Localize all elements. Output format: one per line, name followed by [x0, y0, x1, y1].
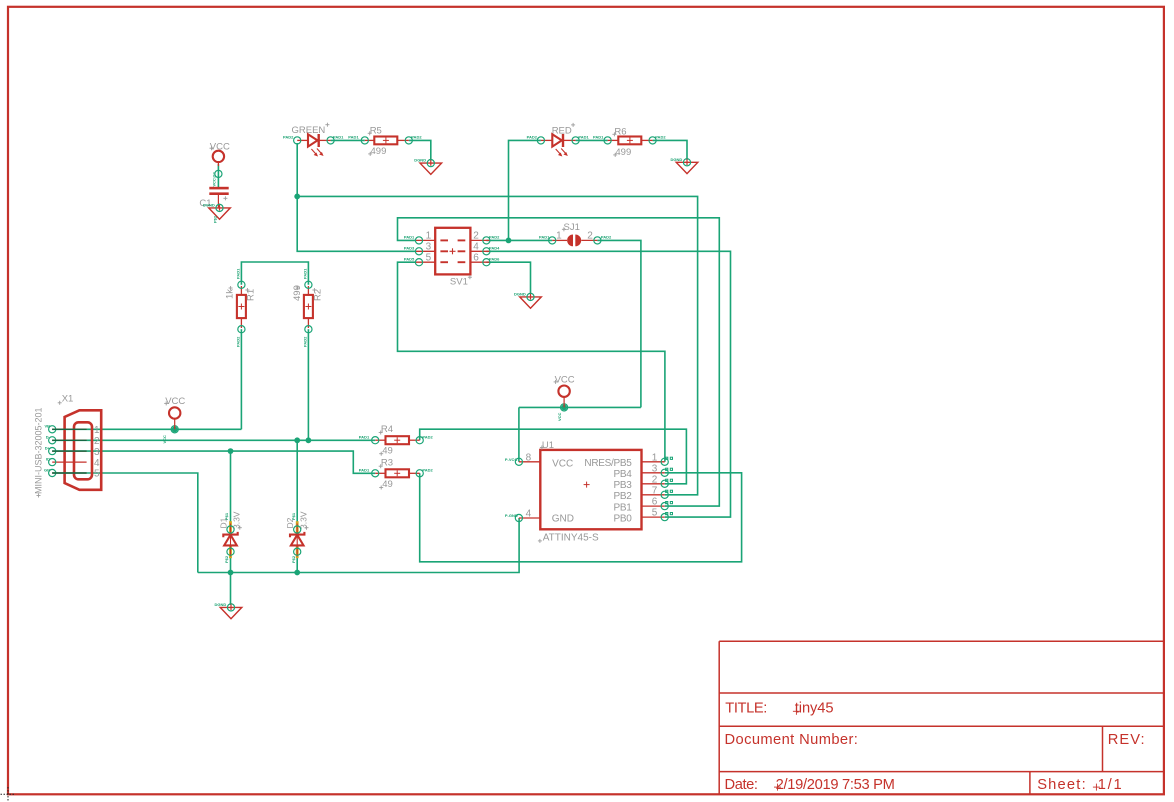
zener diode D1 3.3V: [218, 511, 241, 563]
svg-text:NRES/PB5: NRES/PB5: [584, 458, 632, 469]
resistor R1 (vertical): [225, 268, 257, 347]
svg-text:4: 4: [94, 458, 100, 469]
svg-text:PAD4: PAD4: [489, 246, 500, 251]
wire VCC down to U1 pin8: [518, 407, 520, 461]
svg-text:5: 5: [426, 252, 432, 263]
svg-text:4: 4: [473, 241, 479, 252]
svg-text:PAD2: PAD2: [489, 235, 500, 240]
svg-text:GN: GN: [44, 467, 50, 472]
svg-text:R5: R5: [370, 126, 382, 137]
svg-text:49: 49: [382, 445, 393, 456]
zener diode D2 3.3V: [285, 511, 308, 563]
svg-text:3: 3: [94, 447, 100, 458]
svg-text:8: 8: [526, 452, 532, 463]
svg-text:PAD2: PAD2: [601, 235, 612, 240]
junction GND rail at D1: [228, 570, 234, 576]
svg-text:PAD6: PAD6: [489, 257, 500, 262]
svg-text:2: 2: [94, 436, 100, 447]
svg-text:1: 1: [652, 452, 658, 463]
svg-text:PAD1: PAD1: [539, 235, 550, 240]
svg-text:P$2: P$2: [213, 215, 218, 223]
wire net MOSI: SV1 pin4 to U1 PB0: [486, 251, 730, 517]
svg-text:P$1: P$1: [291, 512, 296, 520]
junction SJ1/RED LED: [506, 238, 512, 244]
svg-text:PAD2: PAD2: [283, 135, 294, 140]
svg-text:PAD1: PAD1: [359, 468, 370, 473]
ground under R6: [671, 157, 698, 174]
junction D- at R2: [306, 437, 312, 443]
svg-text:TITLE:: TITLE:: [725, 700, 767, 716]
svg-text:SV1: SV1: [450, 277, 468, 288]
svg-text:5: 5: [94, 469, 100, 480]
title block text TITLE: [725, 700, 1146, 792]
svg-text:2: 2: [652, 474, 658, 485]
svg-text:PAD1: PAD1: [593, 135, 604, 140]
svg-text:PAD1: PAD1: [578, 135, 589, 140]
wire X1 pin2 row (D-) to R4: [52, 439, 375, 441]
wire ground rail to U1 pin4: [198, 518, 519, 573]
svg-text:PAD1: PAD1: [333, 135, 344, 140]
svg-text:PB1: PB1: [613, 502, 632, 513]
svg-text:GND: GND: [552, 514, 574, 525]
svg-text:PB2: PB2: [613, 491, 632, 502]
svg-text:VCC@1: VCC@1: [212, 171, 217, 186]
supply VCC (above U1): [554, 375, 575, 421]
svg-text:ID: ID: [46, 456, 50, 461]
svg-text:VB: VB: [44, 424, 50, 429]
svg-text:PB4: PB4: [613, 469, 632, 480]
wire net MISO: SV1 pin1 up over to U1 PB1: [398, 218, 720, 506]
svg-text:R4: R4: [381, 424, 393, 435]
svg-text:PB0: PB0: [613, 513, 632, 524]
svg-text:SJ1: SJ1: [564, 222, 580, 233]
supply VCC (above X1 pin1): [162, 396, 185, 443]
svg-text:X1: X1: [62, 394, 74, 405]
wire net RESET: SV1 pin5 to U1 pin1 NRES: [398, 262, 665, 462]
junction VBUS/VCC at X1: [172, 426, 178, 432]
wire GREEN LED cathode to R5: [331, 139, 365, 141]
wire ground rail stub to GND symbol: [230, 573, 232, 606]
junction D- at D2: [294, 437, 300, 443]
svg-text:PAD2: PAD2: [422, 468, 433, 473]
wire net SCK: GREEN LED anode down to SV1 pin3 row: [297, 143, 415, 251]
U1 pin names NRES/PB5..PB0: [584, 458, 632, 524]
svg-text:P-GND: P-GND: [505, 513, 518, 518]
supply VCC (top left, above C1): [210, 141, 230, 186]
junction D+ at D1: [228, 448, 234, 454]
wire overlap shading on X1 pin stubs: [52, 429, 86, 473]
wire R6 to ground: [653, 140, 687, 159]
svg-text:PAD1: PAD1: [235, 268, 240, 279]
title block frame: [719, 641, 1164, 794]
U1 pin numbers 8,4: [526, 452, 532, 519]
wire D1 top branch: [230, 451, 232, 521]
X1 pin numbers 1-5: [94, 425, 100, 480]
wire SV1 pin6 to ground: [486, 262, 530, 294]
svg-text:4: 4: [526, 509, 532, 520]
svg-text:PAD2: PAD2: [527, 135, 538, 140]
solder jumper SJ1: [539, 222, 612, 246]
wire C1 top to VCC: [217, 164, 219, 188]
svg-text:7: 7: [652, 485, 658, 496]
svg-text:VCC: VCC: [162, 435, 167, 444]
pin header SV1: [404, 228, 500, 288]
svg-text:1: 1: [556, 231, 562, 242]
svg-text:MINI-USB-32005-201: MINI-USB-32005-201: [34, 407, 44, 494]
svg-text:P$2: P$2: [291, 555, 296, 563]
svg-text:499: 499: [615, 147, 631, 158]
resistor R5: [348, 126, 422, 158]
svg-text:Date:: Date:: [725, 777, 758, 793]
svg-text:D-: D-: [46, 435, 51, 440]
svg-text:D+: D+: [45, 445, 51, 450]
U1 pin numbers 1,3,2,7,6,5: [652, 452, 658, 518]
svg-text:3: 3: [426, 241, 432, 252]
wire D2 top branch: [296, 440, 298, 521]
svg-text:499: 499: [371, 146, 387, 157]
svg-text:PAD3: PAD3: [404, 246, 415, 251]
svg-text:2: 2: [473, 231, 479, 242]
svg-text:6: 6: [473, 252, 479, 263]
IC U1 ATTINY45-S: [505, 440, 673, 543]
svg-text:P-VCC: P-VCC: [505, 457, 518, 462]
U1 pin names VCC GND: [552, 459, 574, 525]
wire net SCK: junction to U1 PB2: [297, 196, 697, 494]
svg-text:REV:: REV:: [1108, 732, 1146, 748]
svg-text:2: 2: [587, 231, 593, 242]
wire net VCC row above U1: [519, 406, 641, 408]
svg-text:Sheet:: Sheet:: [1037, 777, 1087, 793]
wire SJ1 pin2 down to VCC row: [597, 240, 641, 407]
svg-text:P$2: P$2: [224, 555, 229, 563]
svg-text:U1: U1: [542, 440, 554, 451]
svg-text:PAD1: PAD1: [348, 135, 359, 140]
ground under SV1 pin6: [514, 291, 541, 308]
svg-text:VCC: VCC: [210, 141, 230, 152]
svg-text:3: 3: [652, 463, 658, 474]
wire X1 pin3 row (D+) to R3: [52, 451, 375, 473]
resistor R2 (vertical): [292, 268, 324, 347]
wire net D- : R4 right up over to U1 PB3: [420, 429, 687, 484]
sheet origin cross bottom-left: [1, 787, 16, 802]
capacitor C1: [199, 187, 228, 209]
wire X1 pin1 row (VBUS): [52, 428, 241, 430]
svg-text:1: 1: [94, 425, 100, 436]
svg-text:1/1: 1/1: [1098, 777, 1124, 793]
resistor R4: [359, 424, 434, 457]
wire R2 bottom to X1 pin2 row: [307, 329, 309, 440]
LED GREEN: [283, 123, 344, 156]
junction GND rail at D2: [294, 570, 300, 576]
svg-text:tiny45: tiny45: [795, 700, 834, 716]
svg-text:ATTINY45-S: ATTINY45-S: [543, 533, 599, 544]
svg-text:6: 6: [652, 497, 658, 508]
wire R1 bottom to X1 pin1 row: [240, 329, 242, 429]
svg-text:1k: 1k: [225, 289, 236, 299]
wire R1 top to R2 top: [241, 262, 308, 285]
svg-text:PAD1: PAD1: [359, 435, 370, 440]
wire D1 bottom branch: [230, 557, 232, 573]
svg-text:VCC: VCC: [552, 459, 573, 470]
svg-text:5: 5: [652, 508, 658, 519]
svg-text:PAD2: PAD2: [655, 135, 666, 140]
svg-text:PAD2: PAD2: [235, 336, 240, 347]
wire D2 bottom branch: [296, 557, 298, 573]
resistor R3: [359, 458, 434, 491]
main ground symbol (bottom): [215, 602, 242, 619]
svg-text:PAD5: PAD5: [404, 257, 415, 262]
resistor R6: [593, 127, 666, 159]
svg-text:VCC: VCC: [557, 412, 562, 421]
svg-text:PB3: PB3: [613, 480, 632, 491]
svg-text:VCC: VCC: [165, 396, 185, 407]
text origin crosses in title block: [774, 708, 1100, 791]
LED RED: [527, 123, 590, 156]
wire RED LED cathode to R6: [576, 139, 608, 141]
svg-text:VCC: VCC: [555, 375, 575, 386]
svg-text:P$1: P$1: [224, 512, 229, 520]
svg-text:PAD2: PAD2: [411, 135, 422, 140]
ground under C1: [203, 202, 230, 219]
wire X1 pin5 row (GND) down: [52, 473, 198, 573]
svg-text:R3: R3: [381, 458, 393, 469]
SV1 pin numbers 1-6: [426, 231, 480, 264]
junction VCC above U1: [561, 405, 567, 411]
svg-text:PAD1: PAD1: [302, 268, 307, 279]
wire RED LED net horizontal + drop to SJ1 row: [509, 140, 541, 240]
ground under R5: [414, 158, 441, 175]
wire net D+ : R3 right down over to U1 PB4: [420, 473, 742, 562]
svg-text:PAD2: PAD2: [302, 336, 307, 347]
wire R5 to ground: [409, 140, 431, 160]
connector X1 MINI-USB: [34, 394, 102, 498]
svg-text:1: 1: [426, 231, 432, 242]
svg-text:2/19/2019 7:53 PM: 2/19/2019 7:53 PM: [776, 777, 895, 793]
junction SCK at green LED column: [294, 194, 300, 200]
svg-text:PAD2: PAD2: [422, 435, 433, 440]
svg-text:Document Number:: Document Number:: [725, 732, 859, 748]
wire SV1 pin2 to SJ1 pin1: [486, 239, 552, 241]
svg-text:49: 49: [382, 479, 393, 490]
svg-text:PAD1: PAD1: [404, 235, 415, 240]
